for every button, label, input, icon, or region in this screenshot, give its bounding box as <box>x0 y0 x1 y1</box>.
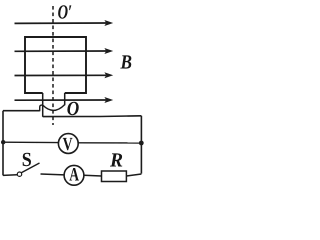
coil droop arc <box>43 105 65 111</box>
wire right vertical <box>140 116 142 174</box>
wire top left segment <box>3 110 40 112</box>
wire resistor to right vertical <box>126 174 141 176</box>
wire top right segment <box>43 115 142 118</box>
field arrow B1 <box>15 20 114 26</box>
voltmeter branch wire left <box>3 141 58 143</box>
switch S <box>17 163 39 176</box>
coil lead left wire <box>42 93 44 117</box>
node junction left <box>1 140 5 144</box>
axis OO' dashed line <box>52 6 54 125</box>
svg-text:R: R <box>109 150 123 172</box>
wire switch to ammeter <box>41 173 65 176</box>
wire left vertical <box>2 111 4 176</box>
svg-text:V: V <box>63 135 73 155</box>
wire riser left of droop <box>40 105 43 111</box>
ammeter A <box>64 165 84 186</box>
resistor R <box>102 171 127 182</box>
wire ammeter to resistor <box>84 174 102 177</box>
field arrow B2 <box>15 48 114 54</box>
svg-text:B: B <box>120 51 132 73</box>
voltmeter V <box>58 134 78 155</box>
field arrow B3 <box>15 72 114 78</box>
svg-text:O′: O′ <box>58 2 73 24</box>
svg-text:A: A <box>69 165 79 186</box>
node junction right <box>139 141 144 146</box>
wire bottom left <box>3 174 17 177</box>
coil lead right wire <box>64 93 66 105</box>
field arrow B4 <box>15 97 114 103</box>
voltmeter branch wire right <box>78 142 141 144</box>
coil loop <box>25 37 86 93</box>
